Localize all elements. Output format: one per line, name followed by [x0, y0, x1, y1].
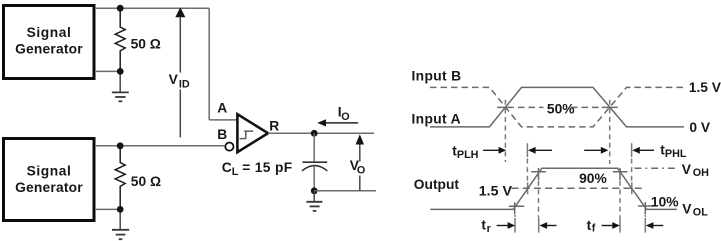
wire R1 to ground — [119, 71, 121, 92]
capacitor CL — [302, 162, 327, 171]
wire SG1 top output to A branch — [95, 7, 209, 9]
junction dot output node — [311, 130, 318, 137]
svg-text:V: V — [169, 72, 179, 87]
input bubble on B — [225, 143, 233, 151]
svg-text:50 Ω: 50 Ω — [131, 37, 161, 52]
wire R2 to ground — [119, 209, 121, 229]
label tPLH — [452, 143, 478, 161]
label tf — [587, 218, 596, 235]
wire into input A — [209, 119, 237, 121]
svg-text:V: V — [682, 162, 692, 177]
signal generator box SG2 — [4, 139, 95, 221]
tPLH left dimension arrow — [483, 147, 506, 154]
svg-text:O: O — [357, 164, 365, 176]
wire bottom node to ground — [313, 191, 315, 202]
crossing 1 vertical dashed line — [504, 100, 506, 162]
junction dot SG1 bottom — [117, 68, 124, 75]
tPLH right dimension arrow — [528, 147, 552, 154]
label CL = 15 pF — [222, 160, 293, 178]
wire vertical down to input A — [208, 8, 210, 120]
resistor R1 50 ohm — [115, 8, 125, 71]
tf right dimension arrow — [646, 222, 664, 229]
svg-text:Signal: Signal — [27, 25, 72, 40]
svg-text:C: C — [222, 160, 232, 175]
svg-text:50%: 50% — [547, 101, 575, 116]
svg-text:OL: OL — [693, 207, 708, 219]
svg-text:Input A: Input A — [412, 112, 461, 127]
ground GND3 — [306, 202, 322, 211]
tf right boundary — [644, 215, 646, 233]
VOH dash-dot line — [635, 167, 679, 169]
resistor R2 50 ohm — [115, 146, 125, 210]
svg-text:90%: 90% — [579, 171, 607, 186]
tr left dimension arrow — [497, 222, 516, 229]
tick at rising 90% — [531, 168, 546, 180]
svg-text:f: f — [592, 223, 596, 235]
tPHL right dimension arrow — [632, 147, 654, 154]
svg-text:Output: Output — [414, 177, 460, 192]
junction dot bottom node — [311, 187, 318, 194]
wire output node down to CL — [313, 133, 315, 161]
tick at falling 90% — [613, 168, 628, 180]
svg-text:PLH: PLH — [457, 149, 479, 161]
wire R output — [268, 132, 374, 134]
VO measurement arrow — [356, 134, 364, 191]
svg-text:Generator: Generator — [15, 180, 83, 195]
tf left boundary dashed vertical — [619, 181, 621, 233]
label VOL — [682, 202, 708, 219]
junction dot SG2 bottom — [117, 206, 124, 213]
junction dot SG1 top — [117, 5, 124, 12]
junction dot SG2 top — [117, 142, 124, 149]
label tr — [481, 218, 491, 235]
svg-text:Generator: Generator — [15, 41, 83, 56]
waveform Input B dashed — [430, 87, 686, 127]
1.5V output reference dashed line — [512, 187, 646, 189]
label tPHL — [660, 143, 687, 160]
crossing 2 vertical dashed line — [609, 100, 611, 164]
svg-text:Input B: Input B — [412, 69, 462, 84]
svg-text:L: L — [232, 166, 239, 178]
svg-text:V: V — [682, 202, 692, 217]
svg-text:OH: OH — [693, 167, 709, 179]
signal generator box SG1 — [4, 6, 95, 79]
tf left dimension arrow — [602, 222, 620, 229]
wire CL to bottom node — [313, 167, 315, 191]
svg-text:0 V: 0 V — [689, 120, 711, 135]
IO current arrow — [317, 119, 358, 126]
svg-text:PHL: PHL — [665, 148, 687, 160]
svg-text:= 15 pF: = 15 pF — [242, 160, 292, 175]
hysteresis symbol — [240, 131, 254, 139]
waveform Input A solid — [430, 87, 684, 127]
label VID — [169, 72, 190, 91]
tick at rising 10% — [509, 202, 525, 214]
svg-text:1.5 V: 1.5 V — [689, 80, 721, 95]
svg-text:Signal: Signal — [27, 164, 72, 179]
label VOH — [682, 162, 709, 179]
output rise reference vertical at 1.5V crossing — [526, 143, 528, 194]
output waveform — [430, 168, 677, 209]
tr right dimension arrow — [540, 222, 557, 229]
label VO — [350, 158, 366, 176]
svg-text:B: B — [217, 127, 227, 142]
wire SG1 bottom output — [95, 70, 120, 72]
bottom rail wire — [314, 190, 376, 192]
svg-text:O: O — [341, 111, 349, 123]
tPHL left dimension arrow — [584, 147, 608, 154]
label IO — [338, 105, 350, 123]
tr right boundary dashed vertical — [538, 181, 540, 233]
svg-text:50 Ω: 50 Ω — [131, 174, 161, 189]
ground GND1 — [112, 92, 129, 101]
svg-text:10%: 10% — [651, 195, 679, 210]
receiver U1 triangle — [237, 114, 268, 152]
50 percent reference line — [497, 106, 618, 108]
wire SG2 bottom output — [95, 208, 120, 210]
svg-text:R: R — [269, 118, 279, 133]
wire SG2 top output to input B — [95, 145, 225, 147]
svg-text:A: A — [217, 101, 227, 116]
svg-text:ID: ID — [179, 79, 190, 91]
output fall reference vertical at 1.5V crossing — [631, 143, 633, 194]
ground GND2 — [112, 230, 129, 239]
VID measurement arrow — [175, 7, 185, 137]
tr left boundary — [514, 215, 516, 233]
tick at falling 10% — [638, 202, 654, 214]
svg-text:1.5 V: 1.5 V — [479, 184, 513, 200]
